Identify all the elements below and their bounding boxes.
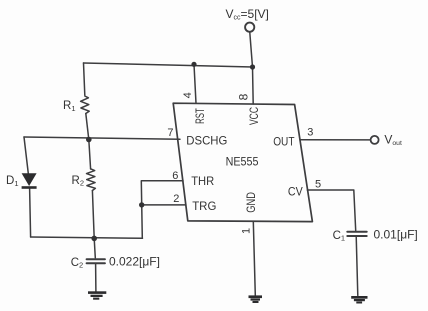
svg-text:VCC: VCC xyxy=(247,107,261,125)
svg-text:6: 6 xyxy=(172,170,178,182)
svg-text:RST: RST xyxy=(193,108,207,124)
svg-text:1: 1 xyxy=(241,228,253,234)
svg-text:OUT: OUT xyxy=(273,135,295,149)
svg-text:0.01[μF]: 0.01[μF] xyxy=(374,228,418,242)
svg-text:2: 2 xyxy=(173,193,179,205)
svg-text:GND: GND xyxy=(244,192,258,213)
svg-text:THR: THR xyxy=(191,174,214,188)
svg-text:DSCHG: DSCHG xyxy=(186,134,227,148)
svg-text:5: 5 xyxy=(315,179,321,191)
svg-text:TRG: TRG xyxy=(192,199,216,213)
svg-text:4: 4 xyxy=(182,92,194,98)
svg-text:7: 7 xyxy=(167,127,173,139)
svg-text:Vcc=5[V]: Vcc=5[V] xyxy=(226,7,269,22)
svg-text:NE555: NE555 xyxy=(226,154,259,168)
svg-text:3: 3 xyxy=(307,127,313,139)
svg-text:8: 8 xyxy=(236,93,250,100)
svg-text:0.022[μF]: 0.022[μF] xyxy=(109,255,160,269)
svg-text:CV: CV xyxy=(288,184,303,198)
